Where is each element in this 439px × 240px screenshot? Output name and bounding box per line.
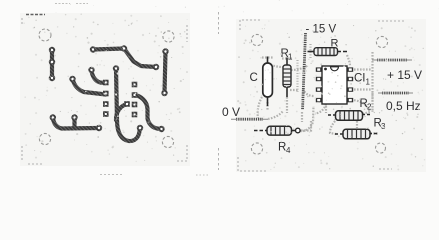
svg-text:1: 1 xyxy=(366,78,371,87)
svg-text:0 V: 0 V xyxy=(222,105,240,119)
svg-text:R: R xyxy=(331,38,339,50)
svg-text:3: 3 xyxy=(381,122,386,131)
svg-text:- 15 V: - 15 V xyxy=(306,24,337,36)
svg-text:2: 2 xyxy=(367,103,372,112)
svg-text:+ 15 V: + 15 V xyxy=(387,68,422,82)
svg-text:0,5 Hz: 0,5 Hz xyxy=(386,99,421,113)
svg-text:1: 1 xyxy=(288,53,293,62)
svg-text:4: 4 xyxy=(286,146,291,155)
svg-text:C: C xyxy=(250,72,258,84)
